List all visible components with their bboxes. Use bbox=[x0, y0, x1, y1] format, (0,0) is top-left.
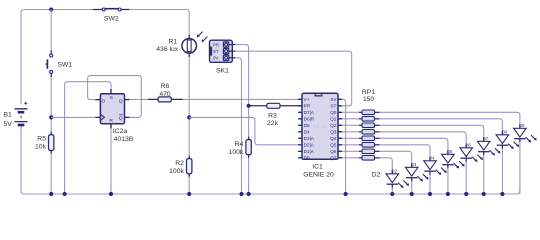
svg-text:R3: R3 bbox=[268, 113, 277, 120]
node junction top rail to SW1 branch bbox=[49, 7, 53, 11]
wire SK1 ST pin to IC1 ST pin bbox=[235, 51, 352, 106]
LED D8 bbox=[496, 131, 519, 149]
node LED D2 cathode on 0V rail bbox=[390, 192, 394, 196]
resistor R1 (LDR) bbox=[182, 32, 208, 57]
wire R3 junction to IC1 PR pin bbox=[249, 105, 302, 107]
svg-text:B1: B1 bbox=[4, 111, 13, 118]
resistor R4 bbox=[246, 137, 251, 158]
resistor R5 bbox=[49, 132, 54, 154]
svg-text:D4: D4 bbox=[304, 130, 310, 135]
node PR junction R3/R4 bbox=[247, 104, 251, 108]
svg-text:PR: PR bbox=[304, 104, 311, 109]
svg-text:100k: 100k bbox=[229, 149, 244, 156]
wire LED D3 cathode to 0V rail bbox=[411, 178, 413, 194]
svg-text:IC2a: IC2a bbox=[113, 128, 128, 135]
wire IC2a R pin to 0V rail bbox=[110, 124, 112, 194]
wire clock junction to IC2a CLK input bbox=[51, 116, 96, 118]
svg-text:D3|A: D3|A bbox=[304, 136, 315, 141]
label R4 bbox=[235, 141, 244, 148]
svg-text:PR: PR bbox=[213, 42, 219, 47]
wire RP1 resistor 1 output to LED D9 anode bbox=[375, 112, 520, 128]
wire LED D4 cathode to 0V rail bbox=[429, 171, 431, 194]
resistor R3 bbox=[267, 103, 280, 108]
label R2 bbox=[175, 160, 184, 167]
node LED D4 cathode on 0V rail bbox=[428, 192, 432, 196]
wire 0V bottom rail from battery negative to LED D9 cathode corner bbox=[21, 127, 520, 195]
svg-text:D2: D2 bbox=[391, 169, 397, 174]
label SW1 bbox=[57, 62, 72, 69]
IC U1 / IC1 (GENIE 20) bbox=[298, 93, 342, 160]
svg-text:0V: 0V bbox=[331, 97, 338, 102]
node R2 on 0V rail bbox=[187, 192, 191, 196]
LED D4 bbox=[424, 157, 447, 175]
svg-text:Q3: Q3 bbox=[330, 130, 337, 135]
node clock junction at SW1/R5 bbox=[49, 115, 53, 119]
svg-text:D7|A: D7|A bbox=[304, 110, 315, 115]
label 5V bbox=[4, 121, 13, 128]
label RP1 bbox=[362, 89, 375, 96]
svg-text:D3: D3 bbox=[411, 162, 417, 167]
svg-text:22k: 22k bbox=[267, 120, 279, 127]
svg-text:R4: R4 bbox=[235, 141, 244, 148]
label D8 (small) bbox=[501, 130, 507, 135]
wire SK1 0V pin down to 0V rail bbox=[235, 58, 242, 194]
svg-text:D2|A: D2|A bbox=[304, 143, 315, 148]
svg-text:ST: ST bbox=[330, 104, 336, 109]
node R5 on 0V rail bbox=[49, 192, 53, 196]
svg-text:GENIE: GENIE bbox=[313, 124, 327, 129]
op-amp IC2a (4013B D-type flip-flop) bbox=[96, 89, 130, 128]
label D3 (small) bbox=[411, 162, 417, 167]
label R6 bbox=[161, 83, 170, 90]
label SK1 bbox=[216, 67, 229, 74]
svg-text:D5: D5 bbox=[447, 149, 453, 154]
wire LED D2 cathode to 0V rail bbox=[391, 184, 393, 194]
svg-text:D7: D7 bbox=[483, 136, 489, 141]
svg-text:GENIE 20: GENIE 20 bbox=[303, 172, 334, 179]
svg-text:D: D bbox=[102, 99, 106, 105]
wire IC1 Q7 to RP1 resistor 8 bbox=[338, 157, 362, 159]
label D7 (small) bbox=[483, 136, 489, 141]
svg-text:R5: R5 bbox=[37, 136, 46, 143]
svg-text:D4: D4 bbox=[429, 156, 435, 161]
node S-ground wire on 0V rail bbox=[63, 192, 67, 196]
svg-text:R1: R1 bbox=[168, 38, 177, 45]
label 470 bbox=[159, 91, 171, 98]
node LED D8 cathode on 0V rail bbox=[500, 192, 504, 196]
label SW2 bbox=[104, 15, 119, 22]
label R1 bbox=[168, 38, 177, 45]
svg-text:150: 150 bbox=[363, 96, 375, 103]
svg-text:436 lux: 436 lux bbox=[156, 46, 179, 53]
wire SK1 PR pin down to R3/R4 junction and through R4 to 0V rail bbox=[235, 45, 249, 194]
node SK1 0V on rail bbox=[239, 192, 243, 196]
wire IC2a notQ feedback loop to D input bbox=[88, 76, 142, 118]
svg-text:Q5: Q5 bbox=[330, 143, 337, 148]
wire RP1 resistor 7 output to LED D3 anode bbox=[375, 151, 412, 167]
svg-text:D8: D8 bbox=[501, 130, 507, 135]
svg-text:Q0: Q0 bbox=[330, 110, 337, 115]
wire IC1 Q6 to RP1 resistor 7 bbox=[338, 150, 362, 152]
svg-text:V+: V+ bbox=[304, 97, 310, 102]
wire IC1 Q3 to RP1 resistor 4 bbox=[338, 131, 362, 133]
svg-text:D0: D0 bbox=[304, 156, 310, 161]
svg-text:Q: Q bbox=[119, 115, 123, 121]
switch SW1 (push-to-make) bbox=[45, 51, 52, 78]
svg-text:Q6: Q6 bbox=[330, 149, 337, 154]
switch SW2 (closed) bbox=[93, 8, 129, 11]
wire RP1 resistor 8 output to LED D2 anode bbox=[375, 158, 393, 174]
svg-text:D5: D5 bbox=[304, 123, 310, 128]
wire IC1 0V pin to 0V rail bbox=[338, 99, 346, 194]
wire IC1 Q1 to RP1 resistor 2 bbox=[338, 118, 362, 120]
label B1 bbox=[4, 111, 13, 118]
label D4 (small) bbox=[429, 156, 435, 161]
wire RP1 resistor 3 output to LED D7 anode bbox=[375, 125, 484, 141]
svg-text:ST: ST bbox=[213, 49, 219, 54]
svg-text:D6: D6 bbox=[465, 143, 471, 148]
svg-text:10k: 10k bbox=[35, 144, 47, 151]
svg-text:R6: R6 bbox=[161, 83, 170, 90]
svg-text:Q2: Q2 bbox=[330, 123, 337, 128]
wire IC2a Q output to R6 bbox=[125, 98, 149, 100]
label 100k bbox=[169, 168, 184, 175]
node LED D7 cathode on 0V rail bbox=[482, 192, 486, 196]
label 4013B bbox=[114, 136, 134, 143]
svg-text:470: 470 bbox=[159, 91, 171, 98]
wire top rail from SW2 to LDR R1 corner bbox=[129, 10, 189, 39]
label 10k bbox=[35, 144, 47, 151]
wire LDR divider junction to IC1 D2/A input bbox=[189, 117, 302, 144]
wire SW1 branch vertical (top rail to SW1) bbox=[50, 10, 52, 51]
wire IC1 Q0 to RP1 resistor 1 bbox=[338, 111, 362, 113]
wire SW1 to clock junction and down through R5 to 0V rail bbox=[50, 77, 52, 194]
svg-text:R: R bbox=[109, 118, 113, 124]
wire RP1 resistor 6 output to LED D4 anode bbox=[375, 145, 431, 161]
connector SK1 bbox=[210, 40, 236, 62]
LED D5 bbox=[442, 151, 465, 169]
wire RP1 resistor 5 output to LED D5 anode bbox=[375, 138, 448, 154]
svg-text:0V: 0V bbox=[213, 56, 218, 61]
label GENIE 20 bbox=[303, 172, 334, 179]
wire R6 to IC1 V+ pin bbox=[182, 98, 302, 100]
svg-text:SK1: SK1 bbox=[216, 67, 229, 74]
wire LED D7 cathode to 0V rail bbox=[483, 152, 485, 194]
node IC1 0V on rail bbox=[344, 192, 348, 196]
svg-text:D2: D2 bbox=[372, 172, 381, 179]
label D9 (small) bbox=[519, 123, 525, 128]
wire +V from battery positive to top rail and across to SW2 bbox=[21, 10, 93, 105]
LED D2 bbox=[386, 170, 409, 188]
label 100k bbox=[229, 149, 244, 156]
wire IC2a S pin to 0V rail bbox=[65, 82, 111, 194]
wire LED D6 cathode to 0V rail bbox=[465, 158, 467, 194]
svg-text:100k: 100k bbox=[169, 168, 184, 175]
node R4 on 0V rail bbox=[247, 192, 251, 196]
svg-text:SW2: SW2 bbox=[104, 15, 119, 22]
wire LDR R1 through junction and R2 to 0V rail bbox=[188, 53, 190, 194]
LED D9 bbox=[514, 125, 537, 143]
svg-text:IC1: IC1 bbox=[312, 164, 323, 171]
wire LED D5 cathode to 0V rail bbox=[447, 165, 449, 194]
svg-text:Q4: Q4 bbox=[330, 136, 337, 141]
node LDR divider junction bbox=[187, 115, 191, 119]
label 22k bbox=[267, 120, 279, 127]
svg-text:Q1: Q1 bbox=[330, 117, 337, 122]
svg-text:Q: Q bbox=[119, 99, 123, 105]
label D2 (small) bbox=[391, 169, 397, 174]
node LED D5 cathode on 0V rail bbox=[446, 192, 450, 196]
label R3 bbox=[268, 113, 277, 120]
svg-text:D6|R: D6|R bbox=[304, 117, 315, 122]
wire LED D9 cathode to 0V rail bbox=[519, 139, 521, 194]
battery B1 5V bbox=[15, 102, 28, 125]
resistor pack RP1 bbox=[359, 110, 380, 160]
label IC1 bbox=[312, 164, 323, 171]
label D6 (small) bbox=[465, 143, 471, 148]
svg-text:5V: 5V bbox=[4, 121, 13, 128]
label 436 lux bbox=[156, 46, 179, 53]
svg-text:D1|A: D1|A bbox=[304, 149, 315, 154]
wire IC1 Q2 to RP1 resistor 3 bbox=[338, 124, 362, 126]
resistor R2 bbox=[187, 156, 192, 177]
label R5 bbox=[37, 136, 46, 143]
LED D6 bbox=[460, 144, 483, 162]
svg-text:R2: R2 bbox=[175, 160, 184, 167]
node LED D3 cathode on 0V rail bbox=[410, 192, 414, 196]
svg-text:SW1: SW1 bbox=[57, 62, 72, 69]
node IC2a R wire on 0V rail bbox=[109, 192, 113, 196]
svg-text:D9: D9 bbox=[519, 123, 525, 128]
svg-text:Q7: Q7 bbox=[330, 156, 337, 161]
label D2 bbox=[372, 172, 381, 179]
wire RP1 resistor 4 output to LED D6 anode bbox=[375, 132, 467, 148]
resistor R6 bbox=[148, 97, 183, 102]
wire IC1 Q5 to RP1 resistor 6 bbox=[338, 144, 362, 146]
svg-text:4013B: 4013B bbox=[114, 136, 134, 143]
LED D7 bbox=[477, 138, 500, 156]
LED D3 bbox=[405, 164, 428, 182]
label 150 bbox=[363, 96, 375, 103]
wire RP1 resistor 2 output to LED D8 anode bbox=[375, 119, 503, 135]
label IC2a bbox=[113, 128, 128, 135]
svg-text:RP1: RP1 bbox=[362, 89, 375, 96]
node LED D6 cathode on 0V rail bbox=[464, 192, 468, 196]
label D5 (small) bbox=[447, 149, 453, 154]
wire IC1 Q4 to RP1 resistor 5 bbox=[338, 137, 362, 139]
wire LED D8 cathode to 0V rail bbox=[501, 145, 503, 194]
